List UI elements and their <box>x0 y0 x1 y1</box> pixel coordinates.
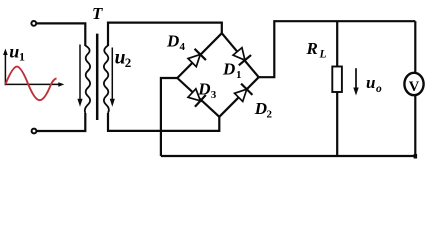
wire right vertex up to top rail <box>259 21 416 77</box>
svg-text:3: 3 <box>211 89 217 101</box>
resistor RL body <box>332 67 342 93</box>
svg-text:V: V <box>409 79 420 95</box>
bottom rail <box>161 155 415 157</box>
secondary winding (wavy coil) <box>104 46 109 114</box>
svg-text:R: R <box>306 39 318 58</box>
svg-text:D: D <box>197 80 210 99</box>
svg-text:2: 2 <box>125 55 132 70</box>
u1 axis arrowheads <box>3 49 64 87</box>
bridge edge D2 (bottom to right) <box>219 77 258 117</box>
wire bottom-left (terminal to transformer primary bottom) <box>37 113 85 131</box>
terminal top-left <box>31 21 36 26</box>
svg-text:u: u <box>366 73 375 92</box>
svg-text:4: 4 <box>180 41 186 53</box>
voltmeter circle <box>404 73 423 95</box>
svg-text:D: D <box>222 60 235 79</box>
wire top-left (terminal to transformer primary top) <box>37 23 86 46</box>
diode D2 symbol <box>233 84 252 103</box>
svg-text:1: 1 <box>236 69 242 81</box>
svg-text:2: 2 <box>267 109 273 121</box>
primary current arrow <box>77 45 82 107</box>
terminal bottom-left <box>32 129 37 134</box>
bridge edge D3 (left to bottom) <box>177 78 219 117</box>
svg-text:T: T <box>92 4 103 23</box>
voltmeter branch wires <box>414 21 416 156</box>
diode D4 symbol <box>186 49 205 68</box>
svg-text:L: L <box>319 49 327 61</box>
u1 horizontal axis <box>5 83 60 85</box>
primary winding (wavy coil) <box>85 46 90 114</box>
svg-text:o: o <box>376 83 382 95</box>
wire left vertex to bottom rail <box>161 78 177 156</box>
uo arrow <box>353 68 358 95</box>
secondary current arrow <box>110 48 115 107</box>
bridge edge D4 (left to top) <box>177 33 222 78</box>
u1 source waveform axes <box>5 53 60 85</box>
junction dot bottom right <box>414 154 418 159</box>
resistor RL branch wires <box>336 21 338 156</box>
wire secondary top to bridge <box>108 23 222 46</box>
u1 vertical axis <box>4 53 6 85</box>
u1 red sine wave <box>5 67 56 101</box>
svg-text:u: u <box>9 42 19 62</box>
bridge edge D1 (top to right) <box>222 33 259 77</box>
transformer core bar <box>96 34 99 120</box>
diode D3 symbol <box>186 87 205 107</box>
wire secondary bottom to bridge bottom vertex <box>108 113 219 131</box>
svg-text:D: D <box>254 99 267 118</box>
svg-text:D: D <box>166 31 179 50</box>
diode D1 symbol <box>231 46 251 65</box>
svg-text:1: 1 <box>19 50 25 64</box>
